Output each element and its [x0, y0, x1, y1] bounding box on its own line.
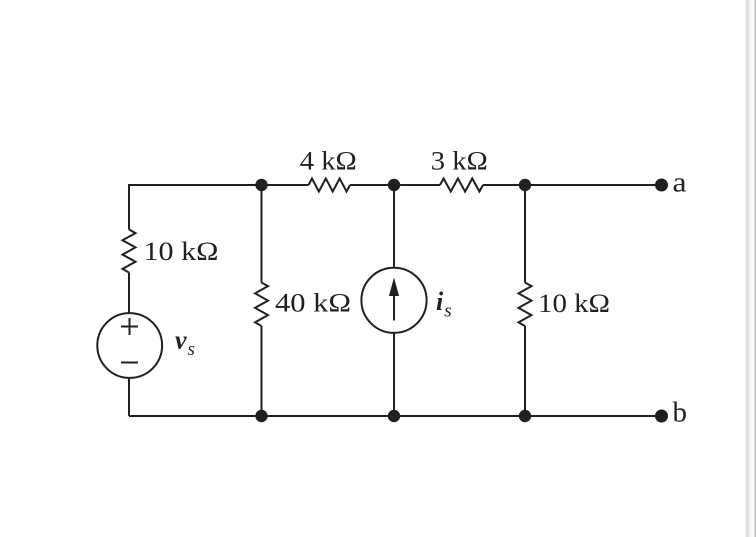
voltage source plus sign [121, 326, 138, 328]
node dot top-2 [388, 179, 400, 191]
wire branch node3 upper [524, 185, 526, 283]
wire branch node2 lower [393, 333, 395, 416]
wire branch node1 upper [261, 185, 263, 283]
wire branch node1 lower [261, 326, 263, 416]
wire left branch between resistor and source [128, 273, 130, 314]
node dot bottom-1 [255, 410, 267, 422]
svg-text:a: a [673, 168, 688, 199]
resistor R3 10 kOhm zigzag left [123, 230, 136, 273]
node dot top-3 [519, 179, 531, 191]
svg-text:b: b [673, 398, 688, 429]
wire left branch lower [128, 378, 130, 416]
voltage source minus sign [121, 362, 138, 364]
resistor R4 40 kOhm zigzag [255, 283, 268, 327]
svg-text:4 kΩ: 4 kΩ [300, 147, 357, 176]
svg-text:10 kΩ: 10 kΩ [538, 289, 610, 318]
current source arrow shaft [393, 284, 395, 321]
node dot bottom-2 [388, 410, 400, 422]
terminal b dot [655, 410, 668, 423]
current source arrowhead [389, 278, 399, 297]
svg-text:10 kΩ: 10 kΩ [144, 237, 219, 266]
svg-text:3 kΩ: 3 kΩ [431, 147, 488, 176]
wire left branch upper [128, 184, 130, 230]
node dot bottom-3 [519, 410, 531, 422]
wire bottom rail [129, 415, 658, 417]
wire top rail middle segment [350, 184, 440, 186]
resistor R5 10 kOhm zigzag right [519, 283, 532, 327]
wire branch node3 lower [524, 326, 526, 416]
resistor R2 3 kOhm zigzag [440, 179, 483, 192]
node dot top-1 [255, 179, 267, 191]
terminal a dot [655, 179, 668, 192]
current source Is circle [361, 268, 426, 333]
wire branch node2 upper [393, 185, 395, 268]
svg-text:40 kΩ: 40 kΩ [275, 289, 351, 318]
voltage source Vs circle [97, 313, 162, 378]
wire top rail left segment [129, 184, 309, 186]
wire top rail right segment to terminal a [483, 184, 658, 186]
resistor R1 4 kOhm zigzag [309, 179, 351, 192]
